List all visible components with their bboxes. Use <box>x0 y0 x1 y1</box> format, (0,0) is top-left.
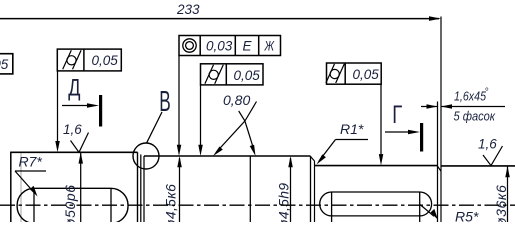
svg-text:0,05: 0,05 <box>353 67 380 82</box>
shaft section 1 top surface <box>11 151 138 153</box>
shaft centerline <box>0 204 515 206</box>
svg-text:Д: Д <box>68 75 80 102</box>
groove line 1 <box>140 155 142 223</box>
frame 2 leader down <box>200 85 202 148</box>
shaft left end face <box>10 152 12 222</box>
shaft section 2 top surface <box>144 155 311 157</box>
runout frame 2 (0,05 under concentricity) <box>201 64 264 85</box>
svg-text:°: ° <box>485 87 489 98</box>
dia 45h9 dimension line <box>290 158 292 222</box>
keyway 1 extension line right <box>110 188 112 222</box>
R1* leader shelf <box>336 139 369 141</box>
datum D flag arrow <box>62 105 90 107</box>
svg-text:ø4,5к6: ø4,5к6 <box>163 184 179 222</box>
runout symbol frame G <box>326 64 344 83</box>
chamfer dim left arrow <box>421 106 438 108</box>
datum G bar <box>420 123 423 152</box>
shaft section 3 top surface <box>315 165 438 167</box>
radius label R5* leader <box>420 205 434 217</box>
concentricity frame (0,03 E Zh) <box>179 36 281 56</box>
roughness 1,6 check mark on section 1 <box>71 133 89 153</box>
svg-text:0,05: 0,05 <box>234 68 261 83</box>
R7* leader shelf <box>15 170 46 172</box>
svg-text:1,6х45: 1,6х45 <box>454 89 487 104</box>
svg-text:ø4,5h9: ø4,5h9 <box>276 183 292 222</box>
keyway 2 extension line right <box>419 192 421 222</box>
roughness 0,80 check mark <box>239 102 257 122</box>
svg-text:Ж: Ж <box>264 39 276 54</box>
concentricity symbol <box>183 39 196 52</box>
frame G leader arrow <box>379 154 384 165</box>
keyway 1 outline <box>17 188 128 223</box>
step 2 chamfer <box>311 157 315 162</box>
right chamfer diagonal <box>438 166 442 171</box>
detail view leader <box>147 112 163 143</box>
roughness 0,80 right prong <box>245 121 254 149</box>
roughness 1,6 right check mark <box>483 146 503 166</box>
cropped tolerance frame at left edge <box>0 54 13 74</box>
detail view circle <box>133 143 159 169</box>
frame D leader arrow at surface 1 <box>55 141 60 152</box>
svg-text:0,05: 0,05 <box>92 53 119 68</box>
svg-text:1,6: 1,6 <box>63 122 82 137</box>
svg-text:Г: Г <box>392 101 402 129</box>
svg-text:ø50р6: ø50р6 <box>62 184 78 222</box>
frame D leader line down <box>57 71 59 144</box>
frame G leader down <box>380 84 382 157</box>
step 2 face <box>310 156 312 222</box>
tolerance zone boundary line <box>249 156 251 222</box>
svg-text:1,6: 1,6 <box>478 136 497 151</box>
svg-text:0,80: 0,80 <box>223 92 250 108</box>
runout symbol frame 2 <box>205 65 223 84</box>
dimension 233 right arrow <box>429 16 441 21</box>
keyway 2 outline <box>320 192 432 216</box>
chamfer dim right arrow and shelf <box>441 106 505 108</box>
svg-text:R1*: R1* <box>340 121 364 137</box>
svg-text:0,03: 0,03 <box>206 39 233 54</box>
svg-text:ø36к6: ø36к6 <box>493 184 509 222</box>
runout symbol in frame D <box>63 50 81 69</box>
R7* leader diagonal <box>15 171 35 193</box>
dimension 233 line <box>0 18 439 20</box>
chamfer extension line <box>437 102 439 223</box>
svg-text:5 фасок: 5 фасок <box>454 109 496 124</box>
faint extension line near left face <box>20 153 22 222</box>
concentricity frame leader down <box>178 56 180 148</box>
roughness 0,80 left prong <box>216 121 245 153</box>
svg-text:E: E <box>243 39 253 54</box>
step 1 face <box>137 152 139 222</box>
dia 36k6 dimension line <box>507 166 509 222</box>
keyway 2 extension line left <box>331 192 333 222</box>
extension line at x441 (shaft step / end of 233) <box>440 17 442 223</box>
datum D bar <box>99 95 102 127</box>
tolerance frame D (radial runout 0,05) <box>57 49 121 71</box>
dia 45k6 dimension line <box>179 158 181 222</box>
R1* leader diagonal <box>319 140 336 162</box>
concentricity frame leader arrow <box>177 145 182 156</box>
dia 50p6 dimension line <box>80 152 82 222</box>
keyway 1 extension line left <box>33 188 35 222</box>
svg-text:R7*: R7* <box>19 154 43 170</box>
step 2 second line <box>314 161 316 222</box>
frame 2 leader arrow <box>198 145 203 156</box>
svg-text:R5*: R5* <box>455 209 479 223</box>
datum G flag arrow <box>385 131 411 133</box>
svg-text:233: 233 <box>176 2 200 17</box>
shaft section 4 top surface <box>441 165 515 167</box>
tolerance frame G (radial runout 0,05) <box>327 63 382 84</box>
groove line 2 <box>143 156 145 222</box>
svg-text:0,05: 0,05 <box>0 57 9 72</box>
